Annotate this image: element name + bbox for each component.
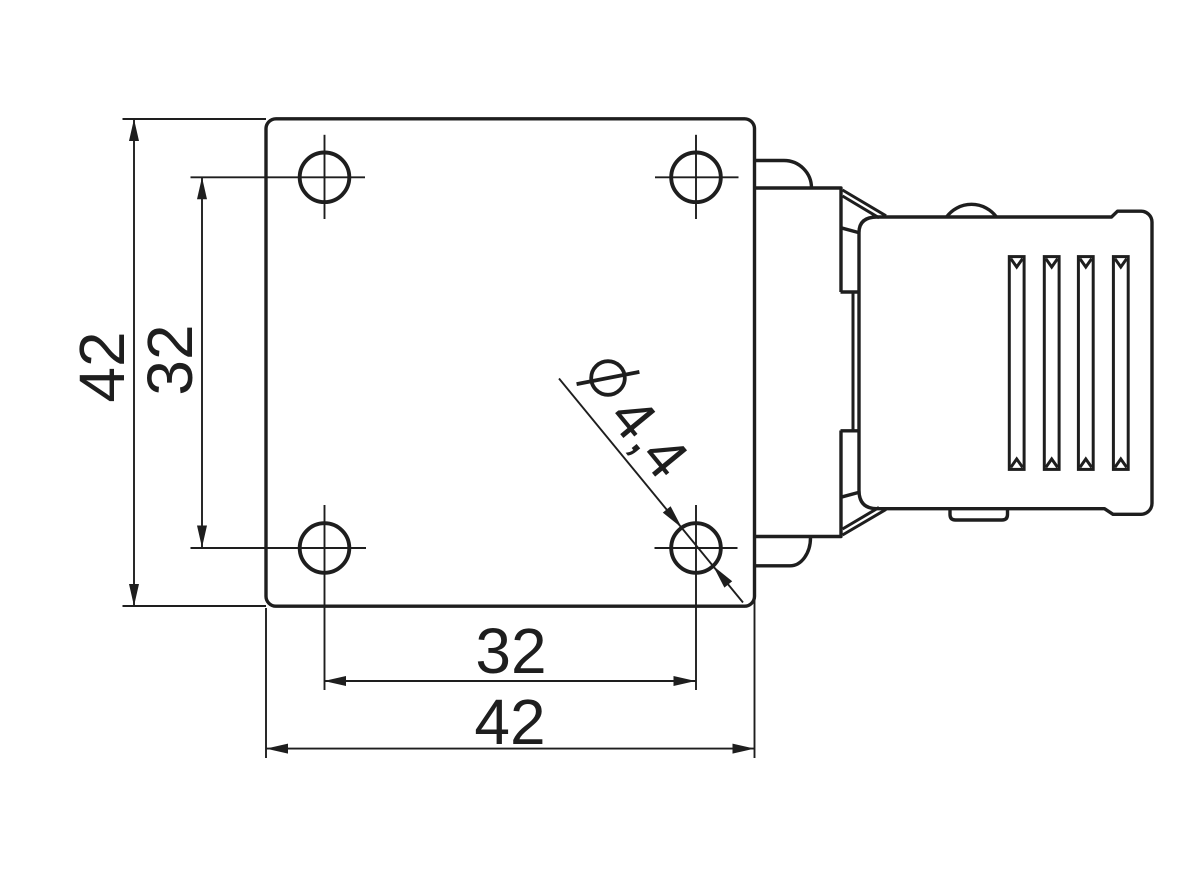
svg-text:42: 42: [66, 331, 138, 402]
svg-text:42: 42: [474, 686, 545, 758]
svg-text:32: 32: [475, 615, 546, 687]
svg-text:32: 32: [134, 324, 206, 395]
